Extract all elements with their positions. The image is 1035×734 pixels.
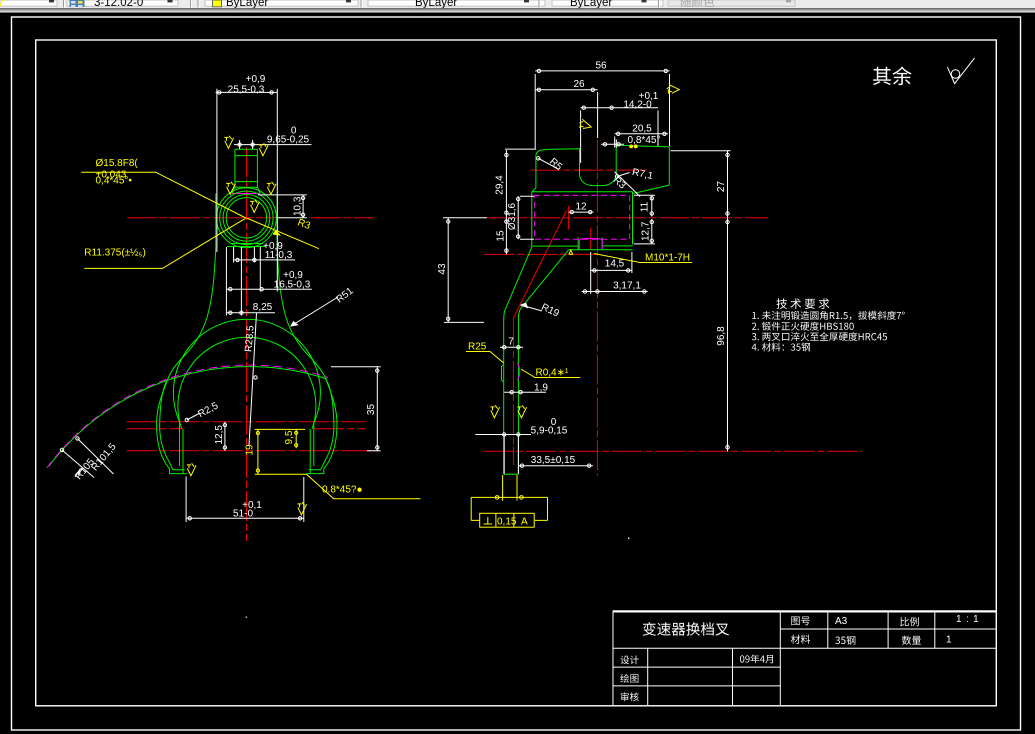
dim 9,65-0,25: [234, 140, 312, 149]
yellow pad dims 19 / 9,5: [255, 429, 307, 474]
separators: [190, 0, 191, 7]
svg-text:96,8: 96,8: [716, 326, 727, 346]
svg-text:9,5: 9,5: [284, 430, 295, 444]
hidden thread (magenta): [579, 239, 602, 249]
surface finish marks (yellow): [0, 0, 6, 5]
lineweight combo: [552, 0, 663, 6]
svg-text:0,4*45°•: 0,4*45°•: [96, 176, 133, 187]
forging boundary arc R101.5: [49, 367, 327, 466]
svg-text:R11.375(±½₅): R11.375(±½₅): [84, 248, 146, 259]
color combo: [205, 0, 358, 6]
part outline: top left horn: [532, 145, 670, 193]
fork pad face arc: [173, 319, 320, 422]
svg-text:11: 11: [640, 201, 651, 212]
plot style combo (disabled): [668, 0, 795, 6]
svg-text:26: 26: [573, 79, 585, 90]
boss circles: [217, 188, 277, 248]
upper slot centerline: [531, 169, 648, 171]
dim 51-0 +0,1: [186, 477, 304, 523]
arm bend centerline: [514, 211, 567, 319]
svg-text:12,7: 12,7: [640, 221, 651, 241]
dim 1,9: [504, 391, 546, 394]
part outline: fork arm: [504, 247, 569, 474]
leader R0,4 (yellow): [521, 369, 580, 378]
svg-text:A: A: [521, 517, 528, 528]
leader R25 (yellow): [466, 352, 504, 364]
yellow chamfer leader 0.8*45: [307, 474, 421, 499]
lower boss centerline: [484, 253, 602, 255]
surface finish symbol (check with circle): [947, 58, 974, 84]
small datum triangle (yellow): [569, 250, 573, 254]
svg-text:27: 27: [716, 181, 727, 193]
svg-text:20,5: 20,5: [632, 124, 652, 135]
leader R101,5: [76, 437, 114, 474]
leader R28,5: [249, 313, 257, 445]
centerline vertical (boss axis): [246, 147, 248, 541]
vertical centerline: [596, 139, 598, 475]
window border bands: [0, 7, 1035, 10]
svg-text:+0,9: +0,9: [246, 74, 266, 85]
svg-text:43: 43: [437, 263, 448, 275]
dim 43: [444, 218, 484, 323]
svg-text:ByLayer: ByLayer: [226, 0, 268, 9]
svg-text:1: 1: [946, 635, 952, 646]
stray blip dots: [628, 538, 630, 540]
combo box A remnant: [0, 0, 57, 6]
svg-text:3,17,1: 3,17,1: [613, 281, 641, 292]
thread hole centerline: [590, 228, 592, 250]
svg-text:3-12.02-0: 3-12.02-0: [94, 0, 143, 9]
forging boundary arc R105 (magenta dashed): [47, 365, 328, 468]
toolbar strip (cut off at top of screenshot): [0, 0, 1035, 13]
leader R5: [537, 157, 559, 170]
svg-text:0.8*45?●: 0.8*45?●: [322, 485, 363, 496]
dim 14,2: [581, 106, 658, 163]
leader R7,1: [615, 173, 629, 179]
dim 15: [505, 218, 508, 255]
leader R19: [521, 303, 542, 311]
svg-text:11-0,3: 11-0,3: [265, 250, 293, 261]
dim 7: [500, 346, 523, 349]
fork inner bore arc: [178, 337, 316, 429]
leader R2,5: [185, 414, 199, 422]
svg-text:R25: R25: [468, 342, 487, 353]
bottom datum centerline: [483, 450, 862, 452]
svg-text:A3: A3: [835, 616, 848, 627]
boss neck outline: [232, 149, 260, 193]
svg-text:14,2-0: 14,2-0: [623, 100, 652, 111]
leader R51: [291, 297, 338, 326]
svg-text:0,8*45°: 0,8*45°: [628, 135, 661, 146]
dim 26: [535, 88, 597, 138]
dim 12,7: [634, 219, 655, 244]
svg-text:16,5-0,3: 16,5-0,3: [274, 279, 311, 290]
title block lines: [613, 611, 996, 706]
main horizontal centerline: [443, 217, 487, 219]
fork body right flank (R51) and right prong: [277, 248, 337, 474]
boss bottom flats: [227, 244, 266, 247]
dim 16,5-0,3: [226, 247, 311, 292]
dim 35: [331, 367, 381, 451]
dim 96,8: [726, 218, 729, 451]
leader R3 (yellow): [247, 218, 320, 249]
dim 11: [634, 195, 655, 216]
svg-text:Ø31,6: Ø31,6: [507, 202, 518, 230]
svg-text:14,5: 14,5: [605, 259, 625, 270]
svg-text:1,9: 1,9: [534, 383, 548, 394]
separator: [63, 0, 64, 7]
leader R105 with break mark: [60, 448, 94, 477]
dim 29,4: [505, 149, 536, 218]
hidden slot (magenta dashed): [534, 195, 629, 239]
svg-text:12: 12: [575, 202, 587, 213]
fork ring outer machined arc (right): [309, 381, 334, 470]
svg-text:19: 19: [244, 444, 255, 456]
dim 33,5±0,15: [518, 464, 593, 467]
fork body left flank and left prong: [157, 248, 216, 474]
dim 56: [535, 69, 669, 148]
right prong inner faces: [310, 422, 314, 474]
svg-text:5,9-0,15: 5,9-0,15: [531, 426, 568, 437]
svg-text:9,65-0,25: 9,65-0,25: [267, 135, 310, 146]
dim 14,5: [591, 252, 632, 294]
centerline fork mouth: [127, 428, 366, 430]
boss side faces: [216, 194, 277, 248]
left prong inner faces: [180, 422, 184, 474]
svg-text:0,15: 0,15: [497, 517, 517, 528]
svg-text:10,3: 10,3: [292, 196, 303, 216]
svg-text:M10*1-7H: M10*1-7H: [645, 253, 690, 264]
svg-text:15: 15: [495, 230, 506, 242]
svg-text:56: 56: [595, 60, 607, 71]
technical requirements text: [776, 298, 829, 309]
dim Ø31,6: [517, 196, 535, 239]
svg-text:29,4: 29,4: [495, 175, 506, 195]
svg-text:R0,4∗¹: R0,4∗¹: [536, 368, 570, 379]
svg-text:51-0: 51-0: [233, 508, 253, 519]
separator: [361, 0, 362, 7]
svg-text:25,5-0,3: 25,5-0,3: [228, 85, 265, 96]
dim 5,9-0,15: [475, 433, 531, 474]
part outline: boss bottom and thread boss: [532, 237, 633, 249]
arm notch: [502, 365, 504, 383]
leader R11.375 (yellow): [84, 218, 245, 268]
centerline fork pad top: [127, 421, 366, 423]
svg-text:ByLayer: ByLayer: [570, 0, 612, 9]
dim 27: [671, 151, 731, 218]
dim 12,5: [223, 422, 226, 451]
svg-text:8,25: 8,25: [253, 302, 273, 313]
leader R3: [615, 172, 641, 197]
svg-text:12,5: 12,5: [214, 425, 225, 445]
dim 3,1 / 7,1: [582, 290, 648, 293]
svg-text:33,5±0,15: 33,5±0,15: [531, 455, 576, 466]
svg-text:7: 7: [508, 337, 514, 348]
dim 8,25: [226, 247, 275, 316]
datum target leaders (yellow): [471, 475, 547, 520]
hidden sliver on shank (magenta): [518, 363, 520, 380]
thread hidden line (magenta): [232, 193, 260, 195]
dim 25,5-0,3: [216, 89, 278, 292]
svg-text:R28,5: R28,5: [243, 325, 256, 353]
feature control frame [⊥|0.15|A] (yellow): [480, 513, 535, 527]
part outline: boss box: [532, 192, 633, 246]
leader M10*1-7H (yellow): [594, 254, 692, 263]
chamfer 0,8*45: [601, 140, 624, 148]
layer combo: [67, 0, 178, 6]
svg-text:1 : 1: 1 : 1: [956, 614, 979, 625]
linetype combo: [368, 0, 545, 6]
fork ring outer machined arc (left): [160, 381, 185, 470]
dim 20,5: [615, 132, 668, 147]
dim 12: [569, 210, 594, 213]
svg-text:ByLayer: ByLayer: [415, 0, 457, 9]
dim 10,3: [258, 195, 307, 218]
hole offset centerline: [568, 206, 570, 230]
note: 其余 (surface finish note): [873, 67, 912, 86]
svg-text:35: 35: [366, 404, 377, 416]
leader Ø15.8F8 (yellow): [81, 172, 246, 218]
centerline fork lower: [127, 450, 378, 452]
dim 11-0,3: [234, 247, 295, 263]
title block texts: [643, 622, 729, 636]
svg-text:Ø15.8F8(: Ø15.8F8(: [96, 158, 139, 169]
centerline horizontal (boss): [127, 217, 278, 219]
